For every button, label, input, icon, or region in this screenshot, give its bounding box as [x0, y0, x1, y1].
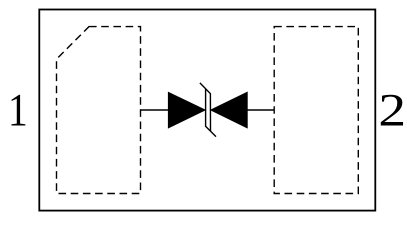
wire cathode to pin2 [247, 109, 274, 111]
svg-text:1: 1 [8, 84, 28, 136]
TVS diode D1 left triangle [168, 92, 205, 128]
package outline (solid border) [39, 10, 375, 211]
zener bar left (with bottom tail) [206, 89, 216, 137]
svg-text:2: 2 [378, 84, 406, 136]
TVS diode D1 right triangle [211, 92, 248, 128]
zener bar right (with top tail) [200, 83, 211, 131]
wire pin1 to anode [141, 109, 169, 111]
terminal pad 1 (dashed, chamfered) [57, 27, 141, 194]
terminal pad 2 (dashed) [274, 27, 358, 194]
